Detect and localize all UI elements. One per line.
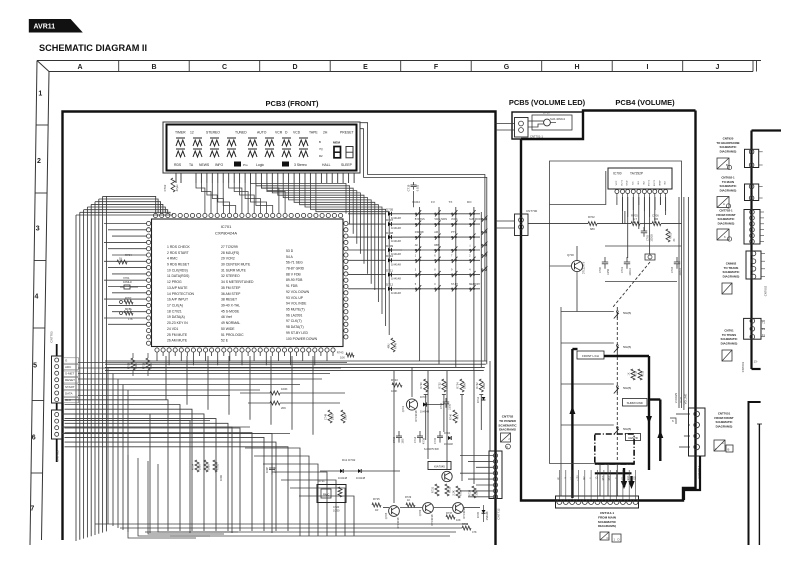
svg-text:MUT2: MUT2: [654, 179, 656, 186]
svg-text:100/35: 100/35: [651, 234, 654, 242]
svg-text:1/50: 1/50: [402, 438, 405, 443]
svg-text:OR: OR: [654, 217, 658, 221]
svg-text:D700: D700: [543, 111, 550, 115]
resistor R737 10K: [446, 515, 455, 519]
svg-text:51 PROLOGIC: 51 PROLOGIC: [221, 333, 244, 337]
svg-text:DTC124TB: DTC124TB: [583, 261, 586, 274]
resistor R733: [445, 484, 449, 496]
svg-text:100R: 100R: [198, 464, 202, 470]
svg-text:J: J: [716, 64, 720, 71]
svg-text:12: 12: [190, 131, 194, 135]
secondary vertical wires lower-left: [107, 368, 109, 524]
svg-text:0.022: 0.022: [416, 184, 420, 191]
svg-text:50k(B): 50k(B): [623, 311, 631, 315]
svg-text:V-DOWN: V-DOWN: [675, 393, 678, 403]
key matrix extra switches right column: [481, 218, 483, 220]
resistor R736 47K: [462, 526, 471, 530]
svg-text:C714: C714: [413, 436, 417, 443]
CNT705 wire drops: [62, 414, 150, 533]
svg-text:100K: 100K: [391, 389, 397, 393]
svg-text:46 Vref: 46 Vref: [221, 315, 232, 319]
svg-text:DIAGRAMS): DIAGRAMS): [598, 524, 616, 528]
svg-text:ST-BY: ST-BY: [451, 283, 459, 286]
svg-text:R734: R734: [456, 382, 460, 389]
svg-text:TAPE MON: TAPE MON: [434, 218, 447, 221]
key matrix column drop wires: [419, 207, 421, 361]
thick bus wire center vertical with down arrow: [648, 356, 650, 470]
svg-text:25 FM MUTE: 25 FM MUTE: [167, 333, 188, 337]
svg-text:D711: D711: [386, 268, 393, 272]
svg-text:C700: C700: [599, 266, 602, 273]
resistors R701 R702 1K: [631, 369, 635, 380]
svg-text:89-90 FDB: 89-90 FDB: [286, 278, 303, 282]
svg-text:D704: D704: [444, 431, 451, 435]
wire fan display pins to IC701 top pins: [196, 183, 205, 213]
volume potentiometer 4 50kB: [616, 427, 618, 429]
svg-text:14 PROTECTION: 14 PROTECTION: [167, 292, 194, 296]
svg-text:FRONT L/CH: FRONT L/CH: [582, 354, 599, 358]
svg-text:100/10: 100/10: [629, 268, 632, 276]
svg-text:H: H: [574, 64, 579, 71]
svg-text:10K: 10K: [456, 518, 461, 522]
svg-text:SCHEMATIC: SCHEMATIC: [498, 423, 517, 427]
PCB3 board outline: [63, 112, 496, 546]
svg-text:D11 D702: D11 D702: [342, 458, 356, 462]
resistor R739 2.2K: [456, 486, 460, 498]
svg-text:F: F: [434, 64, 439, 71]
svg-text:1K: 1K: [119, 257, 123, 261]
svg-text:54 A: 54 A: [286, 255, 294, 259]
svg-text:36 AM STEP: 36 AM STEP: [221, 292, 241, 296]
CNT114-1 diagram reference symbols: [600, 532, 609, 540]
svg-text:56-71 SEG: 56-71 SEG: [286, 261, 303, 265]
CNT114-1 pin stub labels: [558, 470, 560, 499]
svg-text:CXP80424A: CXP80424A: [215, 231, 237, 236]
capacitor C713 1/50: [398, 431, 400, 436]
svg-text:100K: 100K: [463, 383, 467, 389]
wire staircase display right pins to right key bus: [251, 183, 347, 214]
svg-text:32 STEREO: 32 STEREO: [221, 274, 240, 278]
svg-text:FROM MAIN: FROM MAIN: [598, 515, 617, 519]
svg-text:E: E: [363, 64, 368, 71]
svg-text:100 POWER DOWN: 100 POWER DOWN: [286, 337, 318, 341]
svg-text:50k(B): 50k(B): [623, 427, 631, 431]
svg-text:Q701: Q701: [401, 405, 405, 412]
svg-text:1R: 1R: [375, 508, 378, 512]
lower-left routing staircase wires: [65, 400, 169, 531]
transistor Q710: [442, 471, 452, 481]
svg-text:C703: C703: [671, 266, 674, 273]
svg-text:98 DATA(T): 98 DATA(T): [286, 325, 304, 329]
svg-text:CNT712: CNT712: [497, 508, 501, 520]
svg-text:C720: C720: [333, 505, 340, 509]
svg-text:GND: GND: [627, 180, 629, 185]
svg-text:100P: 100P: [265, 467, 269, 473]
IC701 bottom long drop wires: [165, 356, 167, 400]
svg-text:TUNED: TUNED: [235, 131, 247, 135]
svg-text:R738: R738: [468, 489, 472, 496]
svg-text:13-: 13-: [754, 360, 758, 364]
svg-text:1 RDS CHECK: 1 RDS CHECK: [167, 245, 191, 249]
svg-text:M13: M13: [603, 475, 605, 480]
svg-text:B: B: [319, 140, 321, 144]
svg-text:TA7292P: TA7292P: [630, 172, 643, 176]
svg-text:91 FDB: 91 FDB: [286, 284, 298, 288]
wires PCB3 to PCB5 connector: [496, 123, 515, 125]
IC701 bottom pin stub wires: [156, 352, 158, 356]
volume potentiometer 2 50kB: [616, 345, 618, 347]
left vertical wire bundle: [75, 215, 77, 541]
diode D704 1N4148: [448, 436, 451, 440]
capacitor C715 47/16: [439, 431, 441, 436]
svg-text:G: G: [504, 64, 510, 71]
svg-text:MFBL: MFBL: [125, 307, 133, 311]
svg-text:ADC: ADC: [65, 365, 72, 369]
connector CNT712: [489, 451, 502, 499]
svg-text:AVR11: AVR11: [34, 23, 56, 30]
svg-text:100K: 100K: [444, 383, 448, 389]
AVR11 model tab: [29, 19, 83, 33]
svg-text:IC701: IC701: [221, 224, 232, 229]
svg-text:47μH: 47μH: [175, 185, 179, 192]
resistor R751 20K: [248, 402, 270, 404]
transistor Q705 KTC3198: [389, 506, 400, 517]
svg-text:1N4148: 1N4148: [391, 291, 401, 295]
capacitor C700 10/50: [604, 257, 606, 262]
svg-text:V-UP: V-UP: [680, 397, 683, 403]
svg-text:Logic: Logic: [256, 163, 264, 167]
svg-text:1N4148: 1N4148: [391, 277, 401, 281]
svg-text:48U: 48U: [387, 343, 391, 348]
resistor R729 1K: [406, 503, 415, 507]
svg-text:35 FM STEP: 35 FM STEP: [221, 286, 241, 290]
svg-text:R739: R739: [459, 489, 463, 496]
svg-text:R731: R731: [431, 486, 435, 493]
svg-text:47K: 47K: [456, 414, 460, 419]
svg-text:I: I: [647, 64, 649, 71]
svg-text:26 AM MUTE: 26 AM MUTE: [167, 339, 188, 343]
IC700 long drop wires: [622, 197, 624, 224]
connector CNT705: [56, 403, 58, 410]
wire elbows into CNT708-1: [679, 446, 690, 448]
svg-text:A: A: [723, 202, 725, 206]
svg-text:A: A: [77, 64, 82, 71]
svg-text:PRESET: PRESET: [340, 131, 354, 135]
IC701 right pin column: [344, 221, 348, 225]
svg-text:CNT705: CNT705: [56, 450, 60, 462]
svg-text:7: 7: [30, 506, 34, 513]
svg-text:20-23 KEY IN: 20-23 KEY IN: [167, 321, 188, 325]
svg-text:START: START: [65, 385, 75, 389]
svg-text:R729: R729: [405, 495, 412, 499]
display 7-segment digits: [334, 147, 341, 158]
svg-text:4 RMC: 4 RMC: [167, 257, 178, 261]
svg-text:92 VOL DOWN: 92 VOL DOWN: [286, 290, 310, 294]
svg-text:DIAGRAMS): DIAGRAMS): [720, 188, 737, 192]
svg-text:DIAGRAMS): DIAGRAMS): [723, 274, 740, 278]
svg-text:R702: R702: [588, 215, 595, 219]
svg-text:10/50: 10/50: [333, 509, 340, 513]
resistor R715: [204, 460, 208, 472]
transistor Q703 KTC3198: [406, 399, 417, 410]
svg-text:1N4148: 1N4148: [391, 226, 401, 230]
svg-text:KTC3198: KTC3198: [462, 507, 466, 519]
svg-text:VCR1: VCR1: [451, 218, 458, 221]
column resistors R730 R732 R734 R742: [424, 379, 428, 392]
svg-text:C701: C701: [621, 266, 624, 273]
IC701 bottom pin row: [155, 348, 159, 352]
svg-text:VOLUME: VOLUME: [685, 393, 688, 404]
capacitor C703 100/10: [676, 257, 678, 262]
svg-text:19 DATA(A): 19 DATA(A): [167, 315, 185, 319]
svg-text:TAPE: TAPE: [309, 131, 318, 135]
svg-text:DIAGRAMS): DIAGRAMS): [716, 424, 733, 428]
volume potentiometer 3 50kB: [616, 386, 618, 388]
svg-text:SCHEMATIC: SCHEMATIC: [598, 520, 617, 524]
wires into CNT712: [460, 455, 493, 457]
svg-text:S-MET: S-MET: [65, 372, 75, 376]
resistor R748 10/50 and C750: [328, 410, 332, 423]
svg-text:B: B: [151, 64, 156, 71]
thin verticals in PCB4 left: [560, 307, 562, 496]
svg-text:R732: R732: [437, 382, 441, 389]
svg-text:TIMER: TIMER: [175, 131, 186, 135]
svg-text:+15V: +15V: [577, 475, 579, 481]
label CENTR: [626, 434, 641, 441]
svg-text:49 NORMAL: 49 NORMAL: [221, 321, 240, 325]
IC700 pin drop wires: [616, 197, 618, 205]
wire corners left bus to IC701 top-left pins: [76, 213, 173, 215]
svg-text:R730: R730: [419, 382, 423, 389]
svg-text:CENTR: CENTR: [628, 436, 638, 440]
transistor Q708 KTC3198: [453, 503, 464, 514]
svg-text:Q709: Q709: [418, 509, 422, 516]
svg-text:CNT700: CNT700: [526, 209, 538, 213]
diode D712 1N4648: [482, 397, 486, 400]
svg-text:34 S METER/TUNED: 34 S METER/TUNED: [221, 280, 254, 284]
svg-text:1N4148: 1N4148: [356, 476, 366, 480]
resistor R723 100K: [392, 383, 402, 387]
svg-text:INFO: INFO: [215, 163, 223, 167]
svg-text:NC: NC: [632, 181, 634, 185]
svg-text:SLR-40MG3: SLR-40MG3: [550, 117, 565, 121]
svg-text:SUB MOD: SUB MOD: [469, 218, 481, 221]
svg-text:TX: TX: [449, 200, 453, 204]
svg-text:TO POWER: TO POWER: [499, 419, 517, 423]
svg-text:99 ST-BY LED: 99 ST-BY LED: [286, 331, 309, 335]
svg-text:C712: C712: [440, 402, 443, 409]
svg-text:10/50: 10/50: [331, 413, 335, 420]
transistor Q709 KTC3198: [423, 503, 434, 514]
frame top band: [37, 60, 761, 62]
right vertical wire bundle beside IC: [345, 213, 347, 215]
svg-text:KTC3198: KTC3198: [430, 514, 434, 526]
svg-text:D703: D703: [420, 395, 427, 399]
svg-text:PCB4 (VOLUME): PCB4 (VOLUME): [615, 98, 675, 107]
svg-text:300R: 300R: [207, 464, 211, 470]
svg-text:1N4148: 1N4148: [420, 410, 430, 414]
svg-text:52 E: 52 E: [221, 339, 229, 343]
svg-text:10K: 10K: [340, 356, 345, 360]
svg-text:100P: 100P: [344, 414, 348, 420]
thick bus wire left vertical with up arrow: [571, 349, 573, 498]
svg-text:D: D: [292, 64, 297, 71]
volume control lines V-DOWN V-UP VOLUME: [678, 197, 680, 408]
resistor R709 100K: [132, 353, 134, 358]
svg-text:SURROUND: SURROUND: [627, 401, 643, 405]
svg-text:RMC: RMC: [323, 493, 329, 497]
svg-text:A: A: [722, 441, 724, 445]
svg-text:2H: 2H: [323, 131, 328, 135]
IC701 top pin row: [153, 213, 157, 217]
capacitor C723 100P: [271, 463, 273, 468]
svg-text:R736: R736: [462, 522, 469, 526]
svg-text:R749: R749: [394, 342, 398, 349]
svg-text:AUTO: AUTO: [257, 131, 267, 135]
resistor R738 3.3K: [472, 486, 476, 498]
svg-text:C719: C719: [407, 184, 411, 191]
wires from CNT703 pins to circuit: [78, 362, 347, 364]
svg-text:1N4148: 1N4148: [338, 476, 348, 480]
svg-text:29 VCR2: 29 VCR2: [221, 257, 235, 261]
PCB4 interconnect wires: [605, 245, 682, 247]
display segment glyphs: [176, 137, 185, 139]
svg-text:20K: 20K: [281, 406, 286, 410]
svg-text:16 A/P INPUT: 16 A/P INPUT: [167, 298, 188, 302]
svg-text:R703: R703: [670, 232, 673, 239]
svg-text:DIAGRAMS: DIAGRAMS: [499, 428, 516, 432]
svg-text:DATA: DATA: [65, 391, 73, 395]
svg-text:RDS: RDS: [174, 163, 182, 167]
trimmer RT700: [645, 254, 655, 260]
svg-text:24 VD1: 24 VD1: [167, 327, 178, 331]
svg-text:DIAGRAMS): DIAGRAMS): [718, 221, 735, 225]
nested corner wires bottom-left: [245, 448, 300, 536]
svg-text:R2: R2: [319, 154, 323, 158]
IC701 left pin column: [147, 221, 151, 225]
horizontal bus wires mid PCB3: [105, 360, 487, 362]
frame right edge lower wires: [749, 402, 761, 545]
svg-text:CNT602: CNT602: [764, 285, 768, 296]
resistor R718 180K: [147, 353, 149, 358]
svg-text:1N4148: 1N4148: [486, 511, 489, 520]
svg-text:MUT1: MUT1: [649, 179, 651, 186]
svg-text:11 DATA(RDS): 11 DATA(RDS): [167, 274, 189, 278]
svg-text:9 RDS RESET: 9 RDS RESET: [167, 263, 189, 267]
label FRONT L/CH: [577, 351, 604, 359]
offpage bus thick wire right column: [752, 129, 782, 131]
dash-dot shield box around CENTR pot: [595, 434, 634, 464]
svg-text:SLEEP: SLEEP: [341, 163, 353, 167]
svg-text:95 MUTE(T): 95 MUTE(T): [286, 308, 305, 312]
svg-text:1N4148: 1N4148: [391, 262, 401, 266]
svg-text:3K: 3K: [673, 238, 676, 241]
resistor R750 100K: [240, 392, 270, 394]
wire pair display right edge to PCB3 right side: [360, 123, 485, 361]
svg-text:R725: R725: [373, 497, 380, 501]
svg-text:R716: R716: [216, 463, 220, 470]
svg-text:10/50: 10/50: [449, 403, 452, 410]
svg-text:94 VOL INDE: 94 VOL INDE: [286, 302, 307, 306]
svg-text:50 WIDE: 50 WIDE: [221, 327, 235, 331]
IC U701 CXP80424A body: [152, 219, 344, 347]
svg-text:97 CLK(T): 97 CLK(T): [286, 319, 302, 323]
capacitor C701 100/10: [626, 257, 628, 262]
svg-text:D710: D710: [386, 254, 394, 258]
svg-text:D712: D712: [386, 283, 394, 287]
svg-text:4.7: 4.7: [633, 217, 637, 221]
svg-text:2: 2: [37, 158, 41, 165]
resistor R702 680: [588, 222, 597, 226]
svg-text:C723: C723: [274, 466, 278, 473]
thick wire CNT708 to bottom connector: [684, 456, 700, 500]
svg-text:CNT601: CNT601: [741, 361, 745, 372]
svg-text:100K: 100K: [281, 387, 288, 391]
CNT702 diagram reference symbol: [501, 433, 511, 442]
svg-text:R733: R733: [448, 486, 452, 493]
vertical feed wires to lower transistors: [393, 371, 395, 503]
svg-text:C705: C705: [647, 234, 650, 241]
svg-text:D: D: [618, 538, 620, 542]
svg-text:PCB5 (VOLUME LED): PCB5 (VOLUME LED): [509, 98, 586, 107]
svg-text:MEM: MEM: [333, 141, 341, 145]
resistor R740 47K: [453, 410, 457, 423]
svg-text:IC700: IC700: [613, 172, 622, 176]
svg-text:3 Stereo: 3 Stereo: [294, 163, 307, 167]
svg-text:28 MJU(FS): 28 MJU(FS): [221, 251, 239, 255]
svg-text:Q700: Q700: [567, 253, 574, 257]
svg-text:1N4148: 1N4148: [391, 239, 401, 243]
svg-text:R743: R743: [337, 351, 344, 355]
svg-text:100K: 100K: [219, 475, 223, 481]
thin verticals dash-dot box to bottom connector: [599, 464, 601, 496]
volume potentiometer 1 50kB: [616, 311, 618, 313]
diode D706 1N4148 vertical: [482, 510, 486, 513]
svg-text:HALL: HALL: [322, 163, 331, 167]
diode D702 1N4148: [358, 469, 361, 473]
svg-text:VCD: VCD: [293, 131, 301, 135]
wires from CNT705 pins: [62, 413, 170, 415]
svg-text:VCR2: VCR2: [412, 200, 420, 204]
wires IC left pins to left area: [104, 223, 147, 225]
IC701 right pins wires to key matrix diodes: [348, 213, 386, 215]
display pin stubs: [175, 173, 177, 183]
svg-text:D709: D709: [386, 244, 394, 248]
svg-text:OUT1: OUT1: [622, 179, 624, 186]
svg-text:30 CENTER MUTE: 30 CENTER MUTE: [221, 263, 251, 267]
svg-text:VREF: VREF: [659, 179, 661, 185]
svg-text:DD: DD: [635, 476, 637, 480]
svg-text:C715: C715: [433, 437, 437, 444]
svg-text:93 VOL UP: 93 VOL UP: [286, 296, 304, 300]
svg-text:AM: AM: [434, 231, 438, 234]
wire CNT700 to volume circuit: [528, 223, 588, 225]
resistor R703 3K: [666, 229, 670, 242]
svg-text:R721: R721: [318, 479, 325, 483]
svg-text:6: 6: [32, 435, 36, 442]
diode D703 1N4148: [423, 402, 426, 406]
resistor R707: [120, 301, 123, 304]
svg-text:R723: R723: [391, 378, 398, 382]
transistor base row wires: [383, 507, 389, 509]
svg-text:39-40 X-TAL: 39-40 X-TAL: [221, 304, 240, 308]
svg-text:2 RDS START: 2 RDS START: [167, 251, 189, 255]
capacitor C714 47/16: [419, 431, 421, 436]
capacitor C712 10/50: [445, 398, 447, 402]
svg-text:KTC3198: KTC3198: [396, 517, 400, 529]
svg-text:VCR: VCR: [275, 131, 283, 135]
bottom connector CNT114-1: [556, 496, 639, 508]
